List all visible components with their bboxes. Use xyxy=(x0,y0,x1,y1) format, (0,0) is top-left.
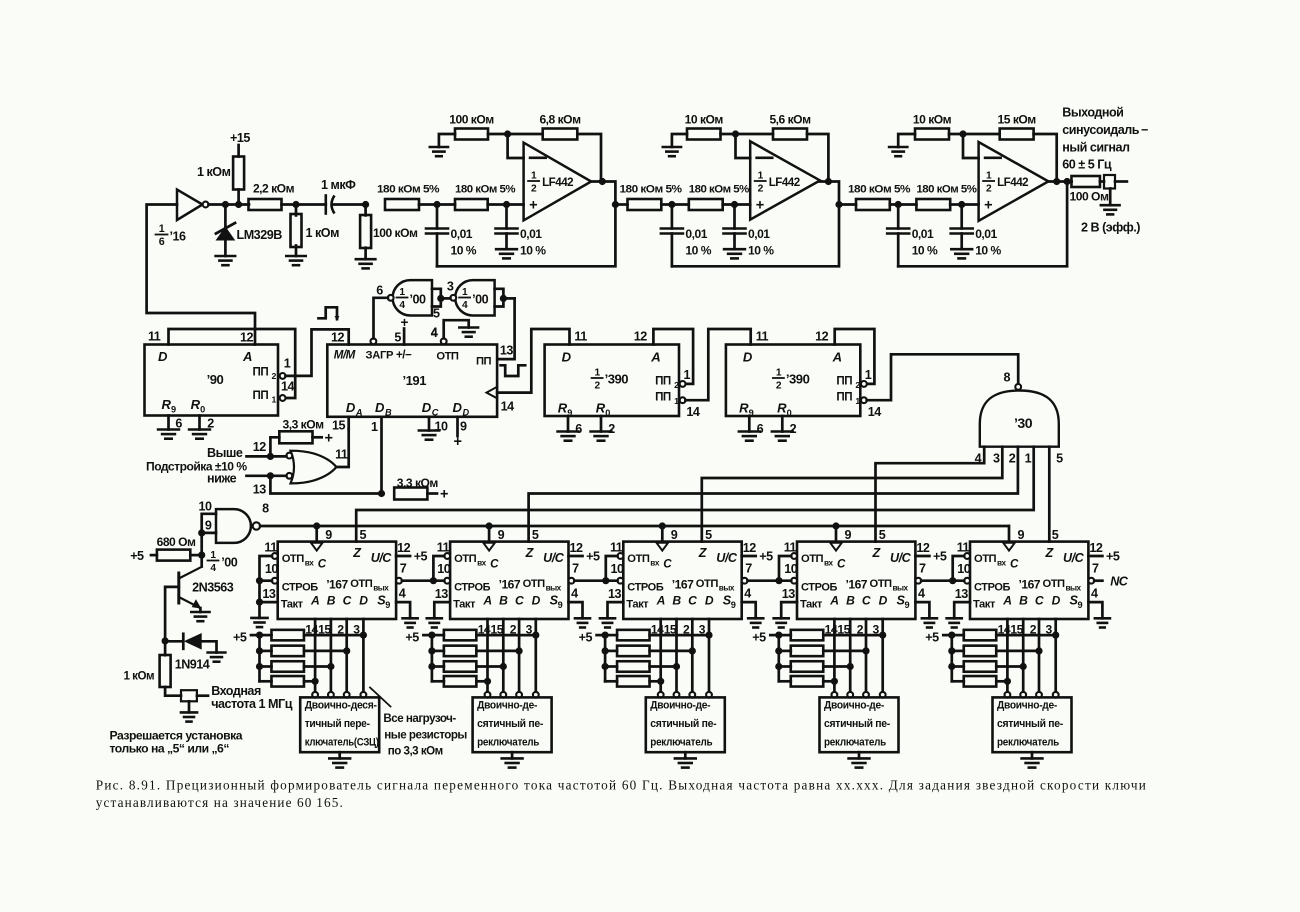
svg-text:D: D xyxy=(346,400,356,415)
svg-text:C: C xyxy=(1035,594,1044,608)
svg-text:4: 4 xyxy=(1091,587,1098,601)
wire stage 1 node j1 xyxy=(419,201,455,208)
svg-text:ОТП: ОТП xyxy=(350,578,373,590)
svg-text:12: 12 xyxy=(240,331,254,345)
svg-text:12: 12 xyxy=(253,440,267,454)
svg-text:синусоидаль −: синусоидаль − xyxy=(1062,123,1148,137)
svg-text:3: 3 xyxy=(447,280,454,294)
wire stage 3 node j2 to op-amp + xyxy=(950,201,978,208)
svg-text:3: 3 xyxy=(993,452,1000,466)
svg-text:0,01: 0,01 xyxy=(685,227,707,241)
label input frequency xyxy=(211,684,293,711)
resistor R9 1 kOm input xyxy=(124,641,182,696)
svg-text:1: 1 xyxy=(159,223,165,235)
svg-text:СТРОБ: СТРОБ xyxy=(801,582,838,594)
svg-text:10: 10 xyxy=(199,500,213,514)
ground for C22 xyxy=(724,249,745,258)
resistor R2a 180 kOm 5% (stage 2) xyxy=(620,184,682,211)
svg-text:ПП: ПП xyxy=(836,391,852,404)
capacitor C11 0,01 (stage 1 to output rail) xyxy=(426,205,477,267)
'167-5 load resistors 3,3 kOm x4 xyxy=(925,630,1059,687)
'167-3 clock pin 9 from bus xyxy=(657,526,678,551)
svg-text:1: 1 xyxy=(399,287,405,298)
'167-4 STROB pin 10 xyxy=(784,562,798,584)
resistor R3a 180 kOm 5% (stage 3) xyxy=(848,184,910,211)
'167-3 OTPvh pin 11 xyxy=(610,540,623,559)
wire Z bus from '167-1 to '30 pin 1 xyxy=(356,447,1033,542)
'90 pin 11 wire to PP1 xyxy=(148,329,295,398)
zener diode VD1 LM329B xyxy=(216,205,282,257)
ground for R4 xyxy=(356,259,376,268)
svg-text:9: 9 xyxy=(498,528,505,542)
svg-text:5: 5 xyxy=(1052,528,1059,542)
'390-1 R9 pin 6 ground xyxy=(558,416,583,441)
svg-text:+: + xyxy=(529,198,537,214)
svg-text:вх: вх xyxy=(650,559,660,568)
svg-text:’16: ’16 xyxy=(170,230,187,244)
svg-text:10: 10 xyxy=(611,562,625,576)
svg-text:6: 6 xyxy=(575,422,582,436)
wire U10 inputs tie xyxy=(198,514,216,559)
svg-text:Двоично-де-: Двоично-де- xyxy=(477,700,538,712)
'90 pin 12 label xyxy=(240,331,254,345)
svg-text:4: 4 xyxy=(571,587,578,601)
svg-text:4: 4 xyxy=(918,587,925,601)
svg-text:R: R xyxy=(739,401,749,416)
resistor R6 3,3 kOm pull-up (Vyshe) xyxy=(270,418,332,457)
svg-text:+5: +5 xyxy=(414,550,428,564)
svg-text:’167: ’167 xyxy=(499,578,521,592)
svg-text:ОТП: ОТП xyxy=(282,553,305,565)
svg-text:5: 5 xyxy=(433,307,440,321)
svg-text:’90: ’90 xyxy=(207,372,224,387)
svg-text:C: C xyxy=(862,594,871,608)
svg-text:R: R xyxy=(191,397,201,412)
'167-2 STROB pin 10 xyxy=(437,562,451,584)
svg-text:1: 1 xyxy=(531,171,537,182)
svg-text:0,01: 0,01 xyxy=(520,227,542,241)
svg-text:9: 9 xyxy=(460,420,467,434)
svg-text:сятичный пе-: сятичный пе- xyxy=(650,718,717,730)
svg-text:10 %: 10 % xyxy=(748,244,774,258)
svg-text:2: 2 xyxy=(855,380,860,390)
svg-text:Такт: Такт xyxy=(973,599,996,611)
svg-text:’191: ’191 xyxy=(403,373,427,388)
svg-text:10: 10 xyxy=(437,562,451,576)
'167-5 Takt pin 13 ground xyxy=(947,602,970,627)
BCD switch S2 xyxy=(473,692,552,759)
svg-text:7: 7 xyxy=(400,562,407,576)
ground for LM329B xyxy=(216,256,236,265)
svg-text:0: 0 xyxy=(200,405,205,415)
svg-text:15 кОм: 15 кОм xyxy=(998,113,1037,127)
svg-text:+5: +5 xyxy=(586,550,600,564)
svg-text:6: 6 xyxy=(757,422,764,436)
'167-5 STROB pin 10 xyxy=(957,562,971,584)
svg-text:СТРОБ: СТРОБ xyxy=(627,582,664,594)
svg-text:180 кОм 5%: 180 кОм 5% xyxy=(848,184,910,196)
wire inverter input feedback from '90 pin 12 xyxy=(147,205,255,345)
negative pulse symbol at '191 pin 13 xyxy=(501,365,526,376)
svg-text:10 %: 10 % xyxy=(451,244,477,258)
svg-text:Выше: Выше xyxy=(207,446,243,460)
'167-4 S9 pin 4 to ground xyxy=(915,587,937,628)
'167-4 OTPvyh pin 7 xyxy=(915,562,926,584)
svg-text:5: 5 xyxy=(394,331,401,345)
'167-4 OTPvh pin 11 xyxy=(784,540,797,559)
'167-2 clock pin 9 from bus xyxy=(483,526,504,551)
'390-2 R9 pin 6 ground xyxy=(739,416,764,441)
svg-text:вых: вых xyxy=(1066,584,1082,593)
svg-text:9: 9 xyxy=(1018,528,1025,542)
wire stage 1 node j2 to op-amp + xyxy=(488,201,524,208)
svg-text:6: 6 xyxy=(376,284,383,298)
svg-text:12: 12 xyxy=(397,541,411,555)
resistor R1t 100 кОм (stage 1 top, to ground) xyxy=(439,113,494,148)
'167-2 S9 pin 4 to ground xyxy=(569,587,591,628)
svg-text:частота 1 МГц: частота 1 МГц xyxy=(211,697,293,711)
resistor R8 680 Om xyxy=(130,535,202,563)
svg-text:’390: ’390 xyxy=(605,372,629,387)
transistor Q1 2N3563 xyxy=(179,555,234,612)
'167-5 clock pin 9 from bus xyxy=(1003,526,1024,551)
'167-2 OTPvh pin 11 xyxy=(437,540,450,559)
svg-text:A: A xyxy=(656,594,665,608)
'390-2 PP2 pin 1 bubble xyxy=(861,368,872,387)
svg-text:680 Ом: 680 Ом xyxy=(157,535,196,549)
svg-text:’167: ’167 xyxy=(326,578,348,592)
svg-text:2: 2 xyxy=(986,184,992,195)
wire Nizhe input xyxy=(247,472,287,479)
svg-text:9: 9 xyxy=(905,600,910,610)
svg-text:12: 12 xyxy=(634,330,648,344)
wire Z bus from '167-3 to '30 pin 3 xyxy=(702,447,1003,542)
label pin 13 Nizhe xyxy=(253,483,267,497)
wire stage 1 feedback to op-amp minus xyxy=(508,134,524,158)
svg-text:Такт: Такт xyxy=(800,599,823,611)
'167-4 clock pin 9 from bus xyxy=(830,526,851,551)
svg-text:M/M: M/M xyxy=(334,349,356,362)
svg-text:’30: ’30 xyxy=(1014,415,1033,431)
wire stage 2 node j2 to op-amp + xyxy=(723,201,751,208)
svg-text:10 %: 10 % xyxy=(975,244,1001,258)
svg-text:D: D xyxy=(422,400,432,415)
svg-text:0,01: 0,01 xyxy=(451,227,473,241)
'390-1 PP1 pin 14 bubble xyxy=(680,397,700,419)
svg-text:1 кОм: 1 кОм xyxy=(197,165,231,179)
wire U3a output to ZAGR xyxy=(374,298,388,339)
'167-4 pin 12 to +5 xyxy=(915,541,946,564)
resistor R1 1 kOm pull-up to +15 xyxy=(197,131,250,205)
ground for R2t xyxy=(663,147,681,156)
ground for switch S4 xyxy=(849,758,870,767)
'90 PP2 pin 1 bubble and wire to '191 pin 12 xyxy=(280,329,349,378)
svg-text:4: 4 xyxy=(431,326,438,340)
svg-text:A: A xyxy=(355,408,362,418)
svg-text:13: 13 xyxy=(262,587,276,601)
svg-text:11: 11 xyxy=(574,330,587,344)
svg-text:D: D xyxy=(705,594,714,608)
svg-text:сятичный пе-: сятичный пе- xyxy=(824,718,891,730)
svg-text:2: 2 xyxy=(272,371,277,381)
svg-text:B: B xyxy=(846,594,855,608)
svg-text:+: + xyxy=(454,434,462,450)
input connector X2 1 MHz xyxy=(181,690,208,712)
svg-text:4: 4 xyxy=(462,300,468,311)
note all load resistors 3,3 kOm xyxy=(370,688,467,758)
svg-text:0,01: 0,01 xyxy=(975,227,997,241)
svg-text:A: A xyxy=(482,594,491,608)
wire stage 3 output node xyxy=(1048,178,1071,185)
svg-text:5,6 кОм: 5,6 кОм xyxy=(769,113,811,127)
svg-text:сятичный пе-: сятичный пе- xyxy=(997,718,1064,730)
svg-text:Двоично-де-: Двоично-де- xyxy=(824,700,885,712)
svg-text:’167: ’167 xyxy=(846,578,868,592)
'191 OTP pin 4 bubble to ground xyxy=(431,320,469,344)
svg-text:13: 13 xyxy=(782,587,796,601)
op-amp U1 1/2 LF442 xyxy=(524,143,592,221)
svg-text:5: 5 xyxy=(360,528,367,542)
svg-text:2 В (эфф.): 2 В (эфф.) xyxy=(1081,221,1140,235)
'191 pin 5 tie high xyxy=(394,315,408,345)
svg-text:C: C xyxy=(343,594,352,608)
svg-text:1: 1 xyxy=(865,368,872,382)
svg-text:2: 2 xyxy=(790,422,797,436)
svg-text:Двоично-де-: Двоично-де- xyxy=(997,700,1058,712)
svg-text:2: 2 xyxy=(776,381,782,392)
svg-text:4: 4 xyxy=(399,587,406,601)
'167-1 load resistors 3,3 kOm x4 xyxy=(233,630,367,687)
svg-text:реключатель: реключатель xyxy=(824,736,887,748)
svg-text:13: 13 xyxy=(500,344,514,358)
svg-text:C: C xyxy=(663,558,672,571)
label pin 11 gate output xyxy=(335,448,348,462)
svg-text:10 %: 10 % xyxy=(685,244,711,258)
'167-1 bottom pins A B C D xyxy=(305,619,363,692)
ground for X2 xyxy=(181,712,197,721)
svg-text:вых: вых xyxy=(546,584,562,593)
svg-text:Такт: Такт xyxy=(626,599,649,611)
'167-5 Z output pin 5 label xyxy=(1052,528,1059,542)
'191 clock pin 14 triangle xyxy=(487,387,515,414)
svg-text:5: 5 xyxy=(879,528,886,542)
svg-text:A: A xyxy=(832,350,842,365)
wire Q1 base to input node xyxy=(162,587,179,645)
svg-text:B: B xyxy=(672,594,681,608)
'30 input pin labels xyxy=(975,452,1064,466)
svg-text:+: + xyxy=(984,198,992,214)
svg-text:10 кОм: 10 кОм xyxy=(685,113,724,127)
svg-text:LF442: LF442 xyxy=(542,176,573,189)
svg-text:9: 9 xyxy=(171,405,176,415)
'167-1 Z output pin 5 label xyxy=(360,528,367,542)
svg-text:9: 9 xyxy=(845,528,852,542)
wire stage 2 output to stage 3 xyxy=(839,203,856,206)
'167-4 Takt pin 13 xyxy=(782,587,796,601)
svg-text:9: 9 xyxy=(1078,600,1083,610)
svg-text:ниже: ниже xyxy=(207,472,237,486)
'167-4 bottom pins A B C D xyxy=(825,619,883,692)
svg-text:Выходной: Выходной xyxy=(1062,106,1123,120)
label output signal xyxy=(1062,106,1148,235)
label U10 pin 8 xyxy=(262,502,269,516)
svg-text:4: 4 xyxy=(399,300,405,311)
rate multiplier U12 '167 block 2 xyxy=(450,542,568,619)
svg-text:ОТП: ОТП xyxy=(870,578,893,590)
resistor R7 3,3 kOm pull-up (DB) xyxy=(394,476,448,503)
svg-text:+5: +5 xyxy=(130,549,144,563)
'390-2 PP1 pin 14 bubble xyxy=(861,397,881,419)
wire '390-2 PP1 to gate '30 output xyxy=(867,354,1019,400)
svg-text:14: 14 xyxy=(868,405,882,419)
svg-text:9: 9 xyxy=(731,600,736,610)
rate multiplier U15 '167 block 5 xyxy=(970,542,1088,619)
svg-text:C: C xyxy=(432,408,439,418)
resistor R1a 180 kOm 5% (stage 1) xyxy=(377,184,439,211)
'167-1 clock pin 9 from bus xyxy=(311,526,332,551)
'167-1 STROB pin 10 xyxy=(265,562,279,584)
wire stage 2 feedback to op-amp minus xyxy=(736,134,751,158)
svg-text:1: 1 xyxy=(684,368,691,382)
counter U5 '191 xyxy=(327,345,497,418)
ground for switch S1 xyxy=(329,758,350,767)
svg-text:’167: ’167 xyxy=(672,578,694,592)
svg-text:СТРОБ: СТРОБ xyxy=(974,582,1011,594)
svg-text:R: R xyxy=(162,397,172,412)
positive pulse symbol at '191 pin 12 xyxy=(319,307,340,321)
'167-4 Z output pin 5 label xyxy=(879,528,886,542)
BCD switch S5 xyxy=(993,692,1072,759)
svg-text:11: 11 xyxy=(756,330,769,344)
svg-text:+5: +5 xyxy=(933,550,947,564)
ground for R3 xyxy=(286,256,306,265)
'167-1 OTPvyh pin 7 xyxy=(396,562,407,584)
svg-text:1: 1 xyxy=(776,368,782,379)
'90 PP1 pin 14 bubble xyxy=(280,380,295,401)
svg-text:2: 2 xyxy=(595,381,601,392)
counter U7 1/2 '390 xyxy=(726,345,861,419)
wire 1 MHz clock bus xyxy=(260,522,1009,529)
svg-text:100 кОм: 100 кОм xyxy=(449,113,494,127)
svg-text:A: A xyxy=(650,350,660,365)
svg-text:+5: +5 xyxy=(925,631,939,645)
svg-text:Разрешается установка: Разрешается установка xyxy=(110,729,243,743)
svg-text:100 Ом: 100 Ом xyxy=(1070,190,1109,204)
nand gate U8 '30 xyxy=(980,384,1059,447)
svg-text:1N914: 1N914 xyxy=(175,658,210,672)
svg-text:C: C xyxy=(490,558,499,571)
svg-text:ОТП: ОТП xyxy=(1043,578,1066,590)
svg-text:ОТП: ОТП xyxy=(696,578,719,590)
svg-text:180 кОм 5%: 180 кОм 5% xyxy=(916,184,976,196)
svg-text:ЗАГР: ЗАГР xyxy=(366,350,395,362)
svg-text:1: 1 xyxy=(595,368,601,379)
labels gate input pins 5 and 4 xyxy=(431,307,440,340)
svg-text:Входная: Входная xyxy=(211,684,261,698)
svg-text:2,2 кОм: 2,2 кОм xyxy=(253,182,295,196)
wire '167-1 pin 7 to '167-2 pins 11,10 xyxy=(402,556,444,584)
'167-3 STROB pin 10 xyxy=(611,562,625,584)
svg-text:6,8 кОм: 6,8 кОм xyxy=(539,113,581,127)
svg-text:Такт: Такт xyxy=(453,599,476,611)
svg-text:2N3563: 2N3563 xyxy=(192,581,234,595)
svg-text:15: 15 xyxy=(332,419,346,433)
label Podstroika +-10% xyxy=(146,446,247,486)
svg-text:2: 2 xyxy=(531,184,537,195)
svg-text:LM329B: LM329B xyxy=(237,228,283,242)
svg-text:+: + xyxy=(440,487,448,503)
'167-3 Takt pin 13 ground xyxy=(600,602,623,627)
svg-text:7: 7 xyxy=(919,562,926,576)
resistor R3f 15 кОм (stage 3 feedback) xyxy=(949,113,1057,182)
svg-text:вх: вх xyxy=(305,559,315,568)
'167-1 pins 11,10,13 common ground xyxy=(251,556,277,627)
ground for R1t xyxy=(430,147,448,156)
BCD switch S1 xyxy=(300,692,379,759)
svg-text:A: A xyxy=(242,349,252,364)
wire '167-2 pin 7 to '167-3 pins 11,10 xyxy=(574,556,617,584)
svg-text:NC: NC xyxy=(1110,575,1129,589)
svg-text:D: D xyxy=(463,408,470,418)
capacitor C32 0,01 (stage 3 to ground) xyxy=(951,205,1002,258)
svg-text:B: B xyxy=(1019,594,1028,608)
'390-2 pin 11 label xyxy=(756,330,769,344)
wire stage 3 feedback to op-amp minus xyxy=(963,134,979,158)
svg-text:1: 1 xyxy=(371,420,378,434)
svg-text:180 кОм 5%: 180 кОм 5% xyxy=(620,184,682,196)
'167-5 S9 pin 4 to ground xyxy=(1088,587,1110,628)
'167-1 OTPvh pin 11 xyxy=(264,540,277,559)
svg-text:+5: +5 xyxy=(579,631,593,645)
svg-text:2: 2 xyxy=(758,184,764,195)
svg-text:9: 9 xyxy=(558,600,563,610)
svg-text:8: 8 xyxy=(1004,371,1011,385)
svg-text:11: 11 xyxy=(335,448,348,462)
svg-text:U/C: U/C xyxy=(1063,551,1085,565)
'167-5 pin 7 NC xyxy=(1094,575,1129,589)
svg-text:Двоично-де-: Двоично-де- xyxy=(650,700,711,712)
svg-text:ключатель(СЗЦ): ключатель(СЗЦ) xyxy=(305,736,380,748)
capacitor C31 0,01 (stage 3 to output rail) xyxy=(887,205,938,267)
svg-text:9: 9 xyxy=(325,528,332,542)
label '30 pin 8 xyxy=(1004,371,1011,385)
'167-2 Takt pin 13 ground xyxy=(427,602,450,627)
'167-3 OTPvyh pin 7 xyxy=(742,562,753,584)
ground for C12 xyxy=(496,249,517,258)
svg-text:8: 8 xyxy=(262,502,269,516)
svg-text:реключатель: реключатель xyxy=(650,736,713,748)
svg-text:+5: +5 xyxy=(233,631,247,645)
svg-text:11: 11 xyxy=(148,330,161,344)
svg-text:D: D xyxy=(359,594,368,608)
'167-3 load resistors 3,3 kOm x4 xyxy=(579,630,713,687)
BCD switch S3 xyxy=(646,692,725,759)
svg-text:4: 4 xyxy=(744,587,751,601)
label gate U3a output pin 6 xyxy=(376,284,383,298)
svg-text:7: 7 xyxy=(745,562,752,576)
svg-text:реключатель: реключатель xyxy=(477,736,540,748)
rate multiplier U14 '167 block 4 xyxy=(797,542,915,619)
'191 ZAGR bubble pin xyxy=(371,338,377,344)
svg-text:12: 12 xyxy=(916,541,930,555)
svg-text:1: 1 xyxy=(210,550,216,561)
'167-5 pin 12 to +5 xyxy=(1088,541,1119,564)
op-amp U2 1/2 LF442 xyxy=(750,141,820,219)
'167-1 Takt pin 13 xyxy=(262,587,276,601)
svg-text:СТРОБ: СТРОБ xyxy=(454,582,491,594)
rate multiplier U13 '167 block 3 xyxy=(623,542,741,619)
'390-2 R0 pin 2 ground xyxy=(772,416,797,441)
